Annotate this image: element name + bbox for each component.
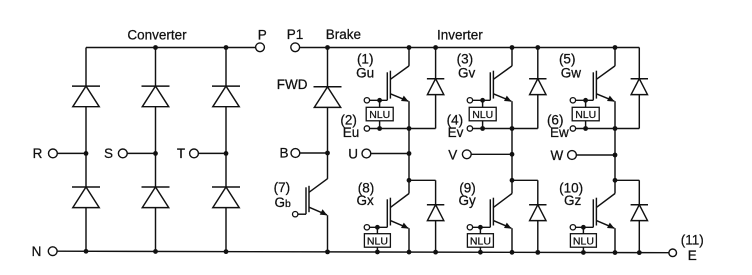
svg-text:Brake: Brake [326,27,361,42]
svg-text:P1: P1 [287,27,304,42]
svg-text:Gb: Gb [275,195,292,210]
svg-text:(7): (7) [274,180,291,195]
svg-text:P: P [258,27,267,42]
svg-text:Gv: Gv [458,65,476,80]
svg-text:NLU: NLU [369,109,390,121]
svg-text:Ev: Ev [448,125,464,140]
svg-text:(3): (3) [457,52,474,67]
svg-text:(5): (5) [559,52,576,67]
svg-text:Converter: Converter [127,28,187,43]
svg-text:N: N [32,244,42,259]
svg-text:S: S [104,146,113,161]
svg-text:Gy: Gy [459,193,477,208]
svg-text:(11): (11) [681,232,704,247]
svg-text:NLU: NLU [470,235,491,247]
svg-text:NLU: NLU [573,235,594,247]
svg-text:FWD: FWD [277,77,308,92]
svg-text:Inverter: Inverter [437,27,483,42]
svg-text:U: U [348,147,358,162]
svg-text:Ew: Ew [550,125,569,140]
svg-text:(1): (1) [357,52,374,67]
svg-text:Gw: Gw [561,65,582,80]
svg-text:Gz: Gz [564,193,582,208]
svg-text:Eu: Eu [343,125,360,140]
svg-text:T: T [177,146,185,161]
svg-text:NLU: NLU [575,109,596,121]
svg-text:Gx: Gx [357,193,375,208]
svg-text:Gu: Gu [356,65,374,80]
svg-text:NLU: NLU [472,109,493,121]
svg-text:V: V [448,147,457,162]
svg-text:W: W [550,148,563,163]
svg-text:B: B [279,145,288,160]
svg-text:R: R [33,146,43,161]
svg-text:NLU: NLU [367,235,388,247]
svg-text:E: E [688,248,697,263]
